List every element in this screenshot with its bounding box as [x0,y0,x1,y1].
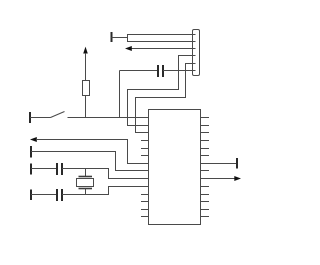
capacitor C1 [57,163,62,175]
wire C3 down to reset net [119,71,121,118]
wire J1 pin5 to U1 pin3 [136,64,196,133]
wire T1 to R1 [112,37,128,39]
wire T2 to U1 pin8 [31,152,149,171]
wire U1 pin (right) to terminal T3 [201,163,238,165]
resistor R2 (vertical pull-up) [83,81,90,96]
pin tick J1 p2 [193,41,196,43]
terminal of switch [29,112,31,123]
switch SW1 [30,112,65,118]
wire A2 to U1 pin7 [36,140,149,164]
terminal T2 [30,146,32,158]
U1 left pin stubs [141,141,149,217]
wire T5 to C2 [31,194,57,196]
capacitor C2 [57,189,62,201]
arrow up (supply) [83,47,88,54]
arrow A2 (left-pointing) [30,137,37,142]
wire T4 to C1 [31,168,57,170]
wire C1 to U1 pin9 (XTAL1 net) [62,169,149,179]
IC U1 body [149,110,201,225]
capacitor C3 (reset cap to J1 pin6) [120,65,196,77]
resistor R1 (long horizontal body to J1) [128,35,193,42]
connector J1 body [193,30,200,76]
wire U1 pin (right) to arrow A3 [201,178,236,180]
terminal T5 [30,190,32,201]
terminal T3 [236,158,238,169]
wire arrow to R2 [85,53,87,81]
terminal T4 [30,164,32,175]
terminal T1 [111,32,113,42]
arrow A1 (left-pointing, J1 pin3) [131,48,196,50]
arrow A3 (right-pointing) [234,176,241,181]
pin tick J1 p1 [193,34,196,36]
wire R2 to switch net [85,96,87,118]
crystal Y1 [77,169,94,195]
U1 right pin stubs [201,118,210,217]
wire switch to U1 pin1 (reset net) [68,117,149,119]
wire C2 to U1 pin10 (XTAL2 net) [62,187,149,195]
wire J1 pin4 to U1 pin2 [128,56,196,126]
